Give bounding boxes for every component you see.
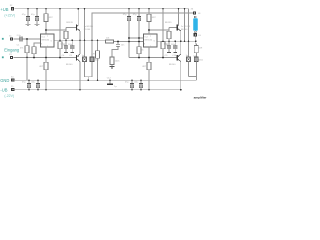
capacitor C10: [173, 41, 177, 52]
resistor R14 supply lower left: [44, 58, 48, 90]
capacitor C7 electrolytic: [127, 9, 144, 58]
capacitor C17 zobel box left: [90, 40, 94, 77]
capacitor C13 electrolytic bottom: [36, 80, 40, 90]
svg-text:GND: GND: [0, 78, 9, 83]
wire stage1 output line: [54, 39, 106, 41]
capacitor C4: [64, 40, 68, 52]
capacitor C14 electrolytic bottom: [130, 80, 134, 90]
svg-text:2x BD139: 2x BD139: [181, 26, 191, 28]
capacitor C15 electrolytic bottom: [139, 80, 143, 90]
node In2 marker: [2, 56, 4, 58]
resistor R10 supply filter right: [147, 9, 151, 34]
svg-text:BD140: BD140: [84, 29, 91, 31]
wire bootstrap right: [188, 9, 190, 42]
connector X4 GND: [11, 79, 14, 82]
wire GND rail: [15, 79, 197, 81]
connector pad jack bottom: [194, 33, 197, 36]
resistor R7 interstage: [106, 40, 114, 43]
svg-text:BD139: BD139: [66, 22, 73, 24]
svg-text:2x BD139: 2x BD139: [84, 26, 94, 28]
resistor R11 bias feed right: [161, 9, 165, 58]
capacitor C5: [70, 40, 74, 52]
svg-text:BD140: BD140: [181, 29, 188, 31]
capacitor C1 electrolytic: [26, 9, 30, 24]
wire stage2 output line: [157, 37, 196, 42]
resistor R16 bias right: [167, 31, 171, 38]
connector pad jack top: [193, 11, 196, 14]
connector X5 -UB: [11, 88, 14, 91]
capacitor C2 electrolytic: [35, 9, 39, 24]
wire supply stub x184.5: [184, 9, 186, 42]
capacitor C16 zobel X-box left: [83, 40, 87, 77]
wire ground reference line right: [129, 57, 177, 59]
resistor R13 zobel right: [194, 41, 198, 57]
resistor R2 input bias: [25, 39, 29, 58]
capacitor C3 input coupling: [20, 37, 22, 42]
svg-text:-UB: -UB: [0, 88, 7, 93]
connector X2 input: [10, 37, 13, 40]
wire input line: [14, 38, 20, 40]
wire -UB rail: [15, 89, 182, 91]
wire bootstrap left: [84, 9, 86, 41]
svg-text:+UB: +UB: [0, 7, 8, 12]
loudspeaker jack blue: [193, 18, 198, 30]
ground: [35, 24, 40, 26]
wire base chain left: [65, 28, 67, 32]
svg-text:NE5534: NE5534: [145, 39, 153, 41]
jack pin circle top: [194, 16, 196, 18]
op-amp IC1: [41, 34, 55, 58]
resistor R9 feedback right: [137, 47, 141, 58]
wire output line left (B) to jack: [92, 13, 193, 40]
capacitor C12 electrolytic bottom: [27, 80, 31, 90]
capacitor C11 zobel box right: [194, 57, 198, 80]
capacitor C6 + resistor R8 chain: [110, 42, 120, 67]
capacitor C9: [167, 41, 171, 52]
transistor Q1: [66, 9, 80, 41]
resistor R6 zobel left: [96, 40, 100, 80]
wire bias tap left: [46, 29, 66, 31]
svg-text:BD140: BD140: [66, 64, 73, 66]
capacitor C18 zobel X-box right: [187, 41, 191, 76]
wire zobel join left: [85, 76, 93, 78]
svg-text:10R: 10R: [91, 54, 95, 56]
svg-text:BD140: BD140: [169, 64, 176, 66]
resistor R4 bias feed left: [58, 9, 62, 58]
node In marker: [2, 38, 4, 40]
transistor Q2: [76, 40, 80, 89]
svg-text:NE5534: NE5534: [42, 39, 50, 41]
ground marker on GND rail: [107, 80, 113, 85]
wire bias tap right: [149, 29, 169, 31]
ground: [109, 66, 114, 68]
wire input bias drop to gnd: [26, 58, 28, 81]
junction dots: [26, 8, 196, 91]
resistor R15 supply lower right: [147, 58, 151, 90]
connector X3 input gnd: [10, 56, 13, 59]
svg-text:amplifier: amplifier: [194, 96, 208, 100]
svg-text:Eingang: Eingang: [4, 47, 20, 52]
ground: [26, 24, 31, 26]
svg-text:10R: 10R: [198, 48, 202, 50]
wire zobel join right: [189, 76, 197, 78]
op-amp IC2: [144, 34, 158, 58]
wire +UB rail A: [15, 8, 189, 10]
resistor R1 supply filter left: [44, 9, 48, 34]
resistor R3 feedback left: [32, 43, 41, 58]
capacitor C8 electrolytic: [137, 9, 141, 47]
svg-text:BD139: BD139: [165, 22, 172, 24]
jack pin circle: [194, 31, 196, 33]
svg-text:(+22V): (+22V): [4, 14, 15, 18]
transistor Q3: [169, 9, 181, 42]
transistor Q4: [177, 41, 181, 89]
resistor R5 bias: [64, 31, 68, 38]
connector X1 +UB: [11, 7, 14, 10]
wire ground reference line left: [14, 57, 76, 59]
wire base chain right: [168, 28, 170, 32]
svg-text:(-22V): (-22V): [4, 94, 14, 98]
